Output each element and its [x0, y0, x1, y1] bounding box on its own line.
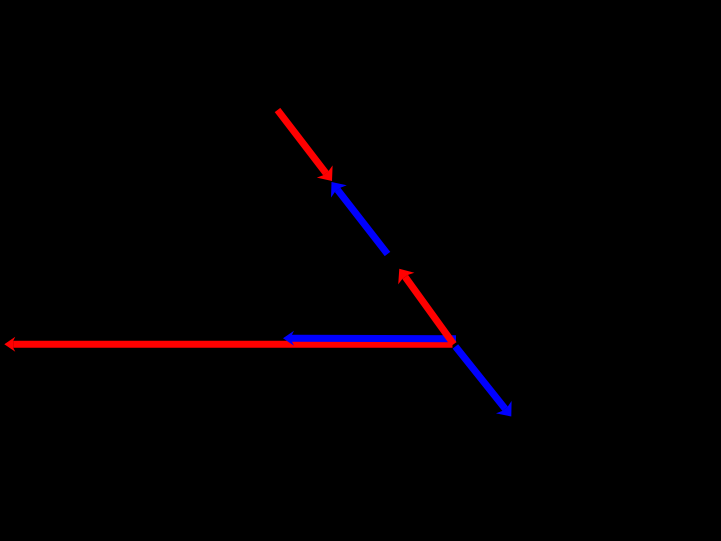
vector arrow red horizontal (long, leftward)	[4, 337, 452, 352]
vector arrow red diagonal upper (pointing down-right)	[278, 110, 333, 181]
vector arrow blue horizontal (leftward, above red)	[283, 331, 456, 346]
vector arrow blue diagonal middle (pointing up-left)	[331, 182, 388, 254]
vector arrow blue diagonal lower (pointing down-right)	[455, 346, 511, 416]
vector arrow red diagonal lower (pointing up-left)	[398, 269, 454, 344]
